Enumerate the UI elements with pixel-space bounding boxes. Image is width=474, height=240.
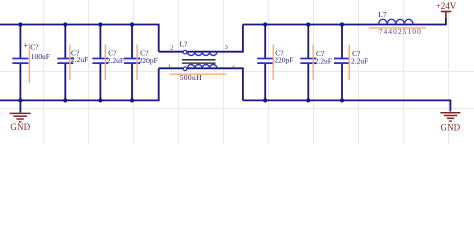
capacitor C7 plates bbox=[334, 59, 350, 64]
junction: C6 at bottom bus bbox=[306, 98, 310, 102]
junction: C6 at top bus bbox=[306, 22, 310, 26]
marker line beside C5 label bbox=[272, 45, 274, 81]
capacitor C4 plates bbox=[124, 59, 140, 64]
marker line beside C6 label bbox=[312, 45, 314, 81]
capacitor C3 plates bbox=[92, 59, 108, 64]
junction: C7 at bottom bus bbox=[340, 98, 344, 102]
common-mode choke L? bottom winding polarity ring bbox=[183, 67, 187, 71]
junction: C5 at top bus bbox=[263, 22, 267, 26]
marker line beside C2 label bbox=[69, 45, 71, 81]
junction: C2 at bottom bus bbox=[63, 98, 67, 102]
inductor L7 winding arcs bbox=[379, 19, 413, 24]
svg-text:2.2uF: 2.2uF bbox=[315, 57, 332, 66]
wire: bottom bus, right section (to right GND) bbox=[243, 100, 451, 111]
left GND ground symbol bars bbox=[10, 113, 31, 121]
capacitor C1 plates bbox=[12, 59, 28, 64]
marker line beside C3 label bbox=[104, 45, 106, 81]
capacitor C5 (designator C?, 220pF) vertical leads bbox=[264, 25, 266, 101]
junction: C1 at bottom bus bbox=[18, 98, 22, 102]
wire: choke pin 4 lead-out dropping to bottom bus bbox=[217, 68, 243, 100]
svg-text:+: + bbox=[23, 41, 28, 50]
svg-text:220pF: 220pF bbox=[274, 55, 293, 64]
capacitor C5 plates bbox=[257, 59, 273, 64]
marker line beside C7 label bbox=[348, 45, 350, 81]
junction: C1 at top bus bbox=[18, 22, 22, 26]
svg-text:1: 1 bbox=[168, 64, 171, 71]
+24V power port bar and stem bbox=[441, 12, 451, 19]
capacitor C7 (designator C?, 2.2uF) vertical leads bbox=[341, 25, 343, 101]
svg-text:C?: C? bbox=[30, 42, 39, 51]
capacitor C1 (designator C?, 100uF) vertical leads bbox=[19, 25, 21, 101]
junction: C4 at top bus bbox=[130, 22, 134, 26]
marker line under choke value label bbox=[170, 73, 227, 75]
wire: choke top baseline segment under winding bbox=[187, 51, 217, 53]
common-mode choke L? core lines bbox=[182, 60, 216, 63]
common-mode choke L? top winding arcs bbox=[187, 52, 217, 56]
junction: C4 at bottom bus bbox=[130, 98, 134, 102]
wire: choke pin 1 lead-in segment bbox=[159, 67, 188, 69]
svg-text:L?: L? bbox=[180, 40, 189, 49]
svg-text:2.2uF: 2.2uF bbox=[71, 55, 88, 64]
svg-text:GND: GND bbox=[440, 123, 460, 133]
svg-text:+24V: +24V bbox=[436, 1, 457, 11]
svg-text:L7: L7 bbox=[378, 10, 387, 19]
svg-text:3: 3 bbox=[225, 44, 228, 51]
wire: choke pin 3 lead-out rising to top bus bbox=[217, 25, 243, 52]
capacitor C6 plates bbox=[300, 59, 316, 64]
junction: C3 at bottom bus bbox=[98, 98, 102, 102]
svg-text:2.2uF: 2.2uF bbox=[107, 56, 124, 65]
svg-text:500uH: 500uH bbox=[180, 73, 202, 82]
wire: bottom bus, left section (GND net to C1-C4 and choke pin 1) bbox=[0, 68, 159, 100]
marker line beside C1 label bbox=[28, 44, 30, 83]
marker line through L7 value label bbox=[369, 27, 426, 29]
left GND stem wire bbox=[19, 100, 21, 112]
wire: top bus, left section (net to C1-C4 and choke pin 2) bbox=[0, 25, 159, 52]
wire: top bus, right section (through L7 to +24V) bbox=[243, 18, 446, 25]
wire: choke pin 2 lead-in segment bbox=[159, 51, 188, 53]
capacitor C4 (designator C?, 220pF) vertical leads bbox=[131, 25, 133, 101]
wire: choke bottom baseline segment under winding bbox=[187, 67, 217, 69]
common-mode choke L? bottom winding arcs bbox=[187, 65, 217, 69]
junction: C2 at top bus bbox=[63, 22, 67, 26]
junction: C3 at top bus bbox=[98, 22, 102, 26]
svg-text:2: 2 bbox=[170, 45, 173, 52]
capacitor C3 (designator C?, 2.2uF) vertical leads bbox=[99, 25, 101, 101]
svg-text:GND: GND bbox=[10, 122, 30, 132]
svg-text:744025100: 744025100 bbox=[379, 27, 422, 36]
marker line beside C4 label bbox=[136, 45, 138, 81]
capacitor C2 (designator C?, 2.2uF) vertical leads bbox=[64, 25, 66, 101]
capacitor C6 (designator C?, 2.2uF) vertical leads bbox=[307, 25, 309, 101]
svg-text:100uF: 100uF bbox=[31, 52, 50, 61]
right GND ground symbol bars bbox=[440, 113, 460, 121]
junction: C5 at bottom bus bbox=[263, 98, 267, 102]
svg-text:220pF: 220pF bbox=[139, 56, 158, 65]
svg-text:2.2uF: 2.2uF bbox=[351, 57, 368, 66]
capacitor C2 plates bbox=[57, 59, 73, 64]
junction: C7 at top bus bbox=[340, 22, 344, 26]
common-mode choke L? top winding polarity ring bbox=[183, 50, 187, 54]
